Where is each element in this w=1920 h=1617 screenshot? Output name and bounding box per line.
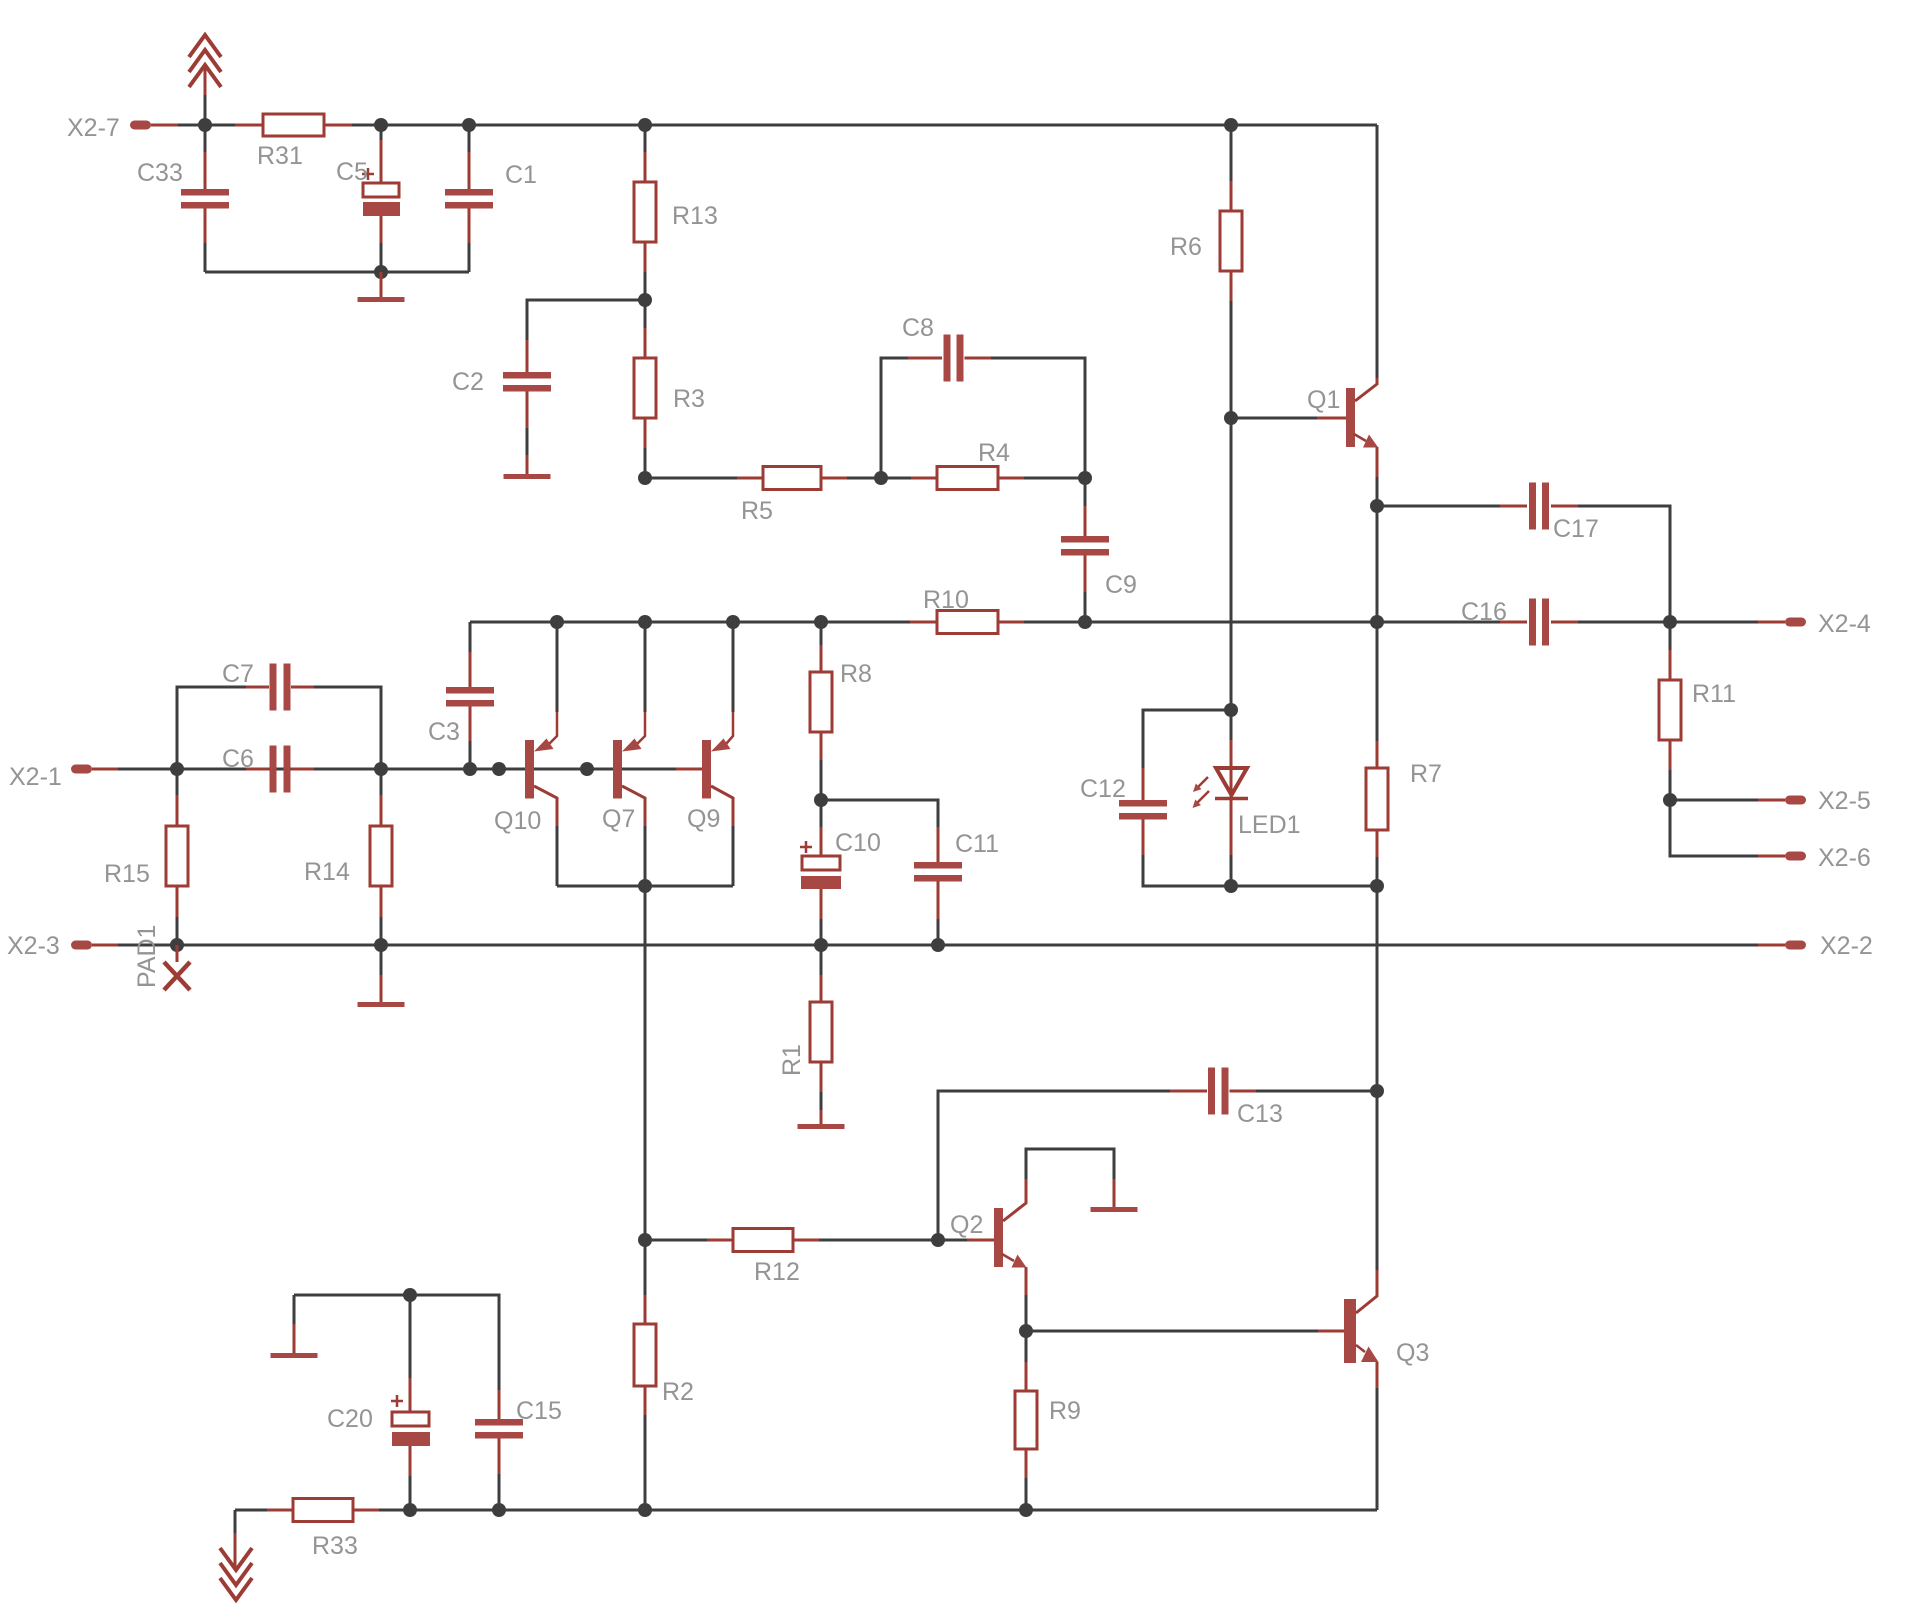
ground below C5 bbox=[358, 272, 405, 302]
node Q2-emitter bbox=[1019, 1324, 1033, 1338]
capacitor C2 bbox=[452, 340, 551, 455]
pin X2-1 bbox=[9, 763, 118, 791]
resistor R13 bbox=[634, 125, 718, 300]
ground below R14 bbox=[358, 945, 405, 1007]
svg-text:X2-6: X2-6 bbox=[1818, 844, 1871, 872]
resistor R9 bbox=[1015, 1331, 1081, 1510]
resistor R8 bbox=[810, 622, 872, 800]
svg-text:C1: C1 bbox=[505, 161, 537, 189]
pin X2-4 bbox=[1670, 610, 1871, 638]
svg-text:C3: C3 bbox=[428, 718, 460, 746]
wire bottom rail bbox=[410, 1509, 1377, 1512]
svg-text:Q7: Q7 bbox=[602, 805, 635, 833]
ground Q2 collector bbox=[1091, 1179, 1138, 1212]
node base-5 bbox=[580, 762, 594, 776]
svg-text:Q2: Q2 bbox=[950, 1211, 983, 1239]
svg-text:C33: C33 bbox=[137, 159, 183, 187]
wire mid rail bbox=[470, 621, 910, 624]
ground below R1 bbox=[798, 1124, 845, 1129]
wire center column bbox=[644, 886, 647, 1240]
resistor R11 bbox=[1659, 622, 1736, 800]
wire LED rail bbox=[1231, 885, 1377, 888]
svg-text:R7: R7 bbox=[1410, 760, 1442, 788]
svg-text:X2-5: X2-5 bbox=[1818, 787, 1871, 815]
node bot-R2 bbox=[638, 1503, 652, 1517]
resistor R1 bbox=[778, 945, 832, 1124]
node X2-4 bbox=[1663, 615, 1677, 629]
resistor R6 bbox=[1170, 125, 1242, 418]
svg-text:R2: R2 bbox=[662, 1378, 694, 1406]
wire R6 to LED bbox=[1230, 418, 1233, 710]
wire C7 right bbox=[314, 687, 381, 769]
svg-text:R8: R8 bbox=[840, 660, 872, 688]
svg-text:Q1: Q1 bbox=[1307, 386, 1340, 414]
capacitor C6 bbox=[222, 745, 314, 793]
svg-text:C16: C16 bbox=[1461, 598, 1507, 626]
wire emitter column bbox=[1376, 506, 1379, 622]
resistor R14 bbox=[304, 769, 392, 945]
node LED-bot bbox=[1224, 879, 1238, 893]
node mid-C9 bbox=[1078, 615, 1092, 629]
capacitor C11 bbox=[914, 827, 999, 945]
transistor Q1 bbox=[1231, 378, 1378, 506]
capacitor C9 bbox=[1061, 450, 1137, 622]
node base-3 bbox=[463, 762, 477, 776]
wire Q1 collector bbox=[1376, 125, 1379, 378]
svg-text:R10: R10 bbox=[923, 586, 969, 614]
capacitor C16 bbox=[1461, 598, 1578, 646]
pad PAD1 bbox=[133, 925, 190, 990]
svg-text:X2-1: X2-1 bbox=[9, 763, 62, 791]
node base-2 bbox=[374, 762, 388, 776]
node R12-left bbox=[638, 1233, 652, 1247]
capacitor C10 (polarized) bbox=[800, 800, 881, 945]
wire top rail bbox=[352, 124, 1377, 127]
wire X2-3 to R14 bbox=[177, 944, 381, 947]
wire Q2 collector loop bbox=[1026, 1149, 1114, 1179]
node x23-2 bbox=[374, 938, 388, 952]
wire C8 left bbox=[881, 358, 908, 478]
capacitor C17 bbox=[1500, 483, 1599, 544]
svg-text:C7: C7 bbox=[222, 660, 254, 688]
svg-text:R9: R9 bbox=[1049, 1397, 1081, 1425]
svg-text:R31: R31 bbox=[257, 142, 303, 170]
node R3-R5 bbox=[638, 471, 652, 485]
capacitor C13 bbox=[1170, 1068, 1377, 1129]
node top-2 bbox=[374, 118, 388, 132]
wire C17 left bbox=[1377, 505, 1500, 508]
node base-4 bbox=[492, 762, 506, 776]
wire C7 left bbox=[177, 687, 246, 769]
svg-text:R4: R4 bbox=[978, 439, 1010, 467]
capacitor C1 bbox=[445, 125, 537, 272]
node Q1-emitter bbox=[1370, 499, 1384, 513]
node top-5 bbox=[1224, 118, 1238, 132]
wire C16 right bbox=[1578, 621, 1670, 624]
svg-text:X2-3: X2-3 bbox=[7, 932, 60, 960]
wire C13 left bbox=[938, 1091, 1170, 1240]
svg-text:Q10: Q10 bbox=[494, 807, 541, 835]
node top-4 bbox=[638, 118, 652, 132]
wire C2 branch bbox=[527, 300, 645, 340]
wire collector rail bbox=[557, 885, 733, 888]
resistor R5 bbox=[645, 467, 881, 526]
node emitter-mid bbox=[1370, 615, 1384, 629]
wire top rail left bbox=[205, 124, 235, 127]
svg-text:R1: R1 bbox=[778, 1044, 806, 1076]
transistor Q2 bbox=[938, 1179, 1027, 1331]
svg-text:R33: R33 bbox=[312, 1532, 358, 1560]
wire to C15 top bbox=[410, 1295, 499, 1390]
node top-1 bbox=[198, 118, 212, 132]
transistor Q9 bbox=[676, 622, 733, 886]
node x22-c10 bbox=[814, 938, 828, 952]
node top-3 bbox=[462, 118, 476, 132]
transistor Q3 bbox=[1344, 1270, 1429, 1510]
node LED-top bbox=[1224, 703, 1238, 717]
resistor R12 bbox=[645, 1229, 938, 1287]
resistor R2 bbox=[634, 1240, 694, 1510]
node R5-R4 bbox=[874, 471, 888, 485]
ground top-left of C20 bbox=[271, 1295, 318, 1358]
svg-text:R15: R15 bbox=[104, 860, 150, 888]
capacitor C3 bbox=[428, 622, 494, 769]
svg-text:R5: R5 bbox=[741, 497, 773, 525]
node mid-q9 bbox=[726, 615, 740, 629]
svg-text:R6: R6 bbox=[1170, 233, 1202, 261]
svg-text:R12: R12 bbox=[754, 1258, 800, 1286]
capacitor C20 (polarized) bbox=[327, 1295, 430, 1510]
node base-1 bbox=[170, 762, 184, 776]
node R12-right bbox=[931, 1233, 945, 1247]
wire C11 top bbox=[821, 800, 938, 827]
capacitor C12 bbox=[1080, 768, 1231, 886]
wire C33-C5-C1 bottom bbox=[205, 271, 469, 274]
supply +V arrow symbol bbox=[189, 35, 221, 125]
svg-text:C17: C17 bbox=[1553, 515, 1599, 543]
node gnd-row bbox=[374, 265, 388, 279]
node bot-C15 bbox=[492, 1503, 506, 1517]
node bot-C20 bbox=[403, 1503, 417, 1517]
node x22-c11 bbox=[931, 938, 945, 952]
wire C12 top bbox=[1143, 710, 1231, 768]
led LED1 bbox=[1193, 710, 1301, 886]
svg-text:C5: C5 bbox=[336, 158, 368, 186]
svg-text:R13: R13 bbox=[672, 202, 718, 230]
svg-text:X2-7: X2-7 bbox=[67, 114, 120, 142]
svg-text:C9: C9 bbox=[1105, 571, 1137, 599]
resistor R31 bbox=[235, 114, 352, 170]
ground below C2 bbox=[504, 455, 551, 479]
wire mid rail right bbox=[1085, 621, 1500, 624]
svg-text:C6: C6 bbox=[222, 745, 254, 773]
transistor Q7 bbox=[602, 622, 645, 886]
svg-text:C10: C10 bbox=[835, 829, 881, 857]
resistor R10 bbox=[910, 586, 1085, 634]
svg-text:C2: C2 bbox=[452, 368, 484, 396]
svg-text:R3: R3 bbox=[673, 385, 705, 413]
svg-text:X2-2: X2-2 bbox=[1820, 932, 1873, 960]
resistor R15 bbox=[104, 769, 188, 945]
node mid-q7 bbox=[638, 615, 652, 629]
capacitor C15 bbox=[475, 1390, 562, 1510]
resistor R33 bbox=[235, 1499, 410, 1561]
pin X2-3 bbox=[7, 932, 177, 960]
wire C8 right bbox=[991, 358, 1085, 450]
supply -V arrow symbol bbox=[220, 1510, 252, 1600]
resistor R7 bbox=[1366, 622, 1442, 886]
wire C17 right bbox=[1578, 506, 1670, 622]
node C13-right bbox=[1370, 1084, 1384, 1098]
svg-text:LED1: LED1 bbox=[1238, 811, 1301, 839]
capacitor C7 bbox=[222, 660, 314, 711]
svg-text:C11: C11 bbox=[955, 830, 999, 858]
resistor R3 bbox=[634, 300, 705, 478]
pin X2-5 bbox=[1670, 787, 1871, 815]
node Q1-base bbox=[1224, 411, 1238, 425]
resistor R4 bbox=[881, 439, 1085, 490]
svg-text:R14: R14 bbox=[304, 858, 350, 886]
svg-text:C8: C8 bbox=[902, 314, 934, 342]
node mid-R8 bbox=[814, 615, 828, 629]
svg-text:C12: C12 bbox=[1080, 775, 1126, 803]
svg-text:Q9: Q9 bbox=[687, 805, 720, 833]
capacitor C5 (polarized) bbox=[336, 125, 400, 272]
capacitor C33 bbox=[137, 125, 229, 272]
node bot-R9 bbox=[1019, 1503, 1033, 1517]
node X2-5 bbox=[1663, 793, 1677, 807]
svg-text:PAD1: PAD1 bbox=[133, 925, 161, 988]
wire C20-C15 top rail bbox=[294, 1294, 410, 1297]
wire Q3 base bbox=[1026, 1330, 1344, 1333]
wire Q3 collector column bbox=[1376, 886, 1379, 1091]
svg-text:C13: C13 bbox=[1237, 1100, 1283, 1128]
node x23-1 bbox=[170, 938, 184, 952]
capacitor C8 bbox=[902, 314, 991, 382]
node R13-R3 bbox=[638, 293, 652, 307]
node mid-q10 bbox=[550, 615, 564, 629]
transistor Q10 bbox=[494, 622, 557, 886]
wire Q3 collector bbox=[1376, 1091, 1379, 1270]
svg-text:Q3: Q3 bbox=[1396, 1339, 1429, 1367]
pin X2-6 bbox=[1670, 800, 1871, 872]
node collector bbox=[638, 879, 652, 893]
svg-text:C15: C15 bbox=[516, 1397, 562, 1425]
pin X2-7 bbox=[67, 114, 205, 142]
wire X2-2 line bbox=[381, 944, 1758, 947]
node R4-C9 bbox=[1078, 471, 1092, 485]
node C20-top bbox=[403, 1288, 417, 1302]
wire base rail bbox=[118, 768, 676, 771]
node R8-C10 bbox=[814, 793, 828, 807]
node R7-bot bbox=[1370, 879, 1384, 893]
svg-text:X2-4: X2-4 bbox=[1818, 610, 1871, 638]
svg-text:R11: R11 bbox=[1692, 680, 1736, 708]
pin X2-2 bbox=[1758, 932, 1873, 960]
svg-text:C20: C20 bbox=[327, 1405, 373, 1433]
